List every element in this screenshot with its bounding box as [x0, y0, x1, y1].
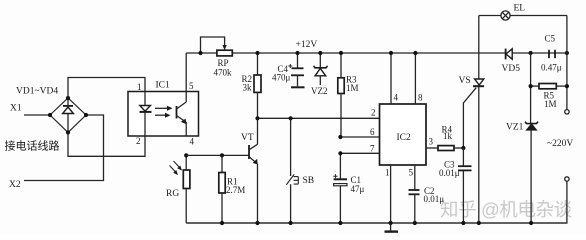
junction R5 left [529, 84, 533, 88]
junction C1 bottom [338, 221, 342, 225]
wire +12V rail [186, 52, 505, 54]
resistor R5 [531, 84, 567, 89]
wire bridge bottom to IC1 pin2 [68, 133, 145, 157]
wire EL right column [566, 16, 568, 110]
junction pin4 on rail [389, 51, 393, 55]
svg-text:X1: X1 [10, 104, 22, 114]
op-to... optocoupler IC1 box [128, 92, 199, 137]
svg-text:4: 4 [190, 137, 195, 147]
diode VD5 [506, 49, 513, 60]
junction R1 bottom [220, 221, 224, 225]
junction SB top [289, 116, 293, 120]
timer IC2 box [380, 104, 427, 165]
wire bridge top to IC1 pin1 [68, 78, 145, 99]
svg-text:RG: RG [166, 189, 179, 199]
svg-text:2: 2 [371, 108, 376, 118]
svg-text:VT: VT [241, 133, 254, 143]
resistor R2 [254, 53, 261, 118]
capacitor C3 [458, 148, 472, 223]
svg-text:8: 8 [418, 93, 423, 103]
transistor VT [249, 118, 258, 223]
wire IC2 pin5 lead [414, 165, 416, 190]
junction C2 bottom [413, 221, 417, 225]
svg-text:5: 5 [189, 81, 194, 91]
potentiometer RP [201, 37, 233, 56]
wire IC2 pin6 [340, 136, 379, 138]
svg-text:1M: 1M [346, 83, 359, 93]
svg-text:接电话线路: 接电话线路 [5, 139, 60, 153]
wire IC2 pin4 riser [390, 53, 392, 104]
junction C3 bottom [461, 221, 465, 225]
thyristor VS [463, 16, 484, 224]
svg-text:4: 4 [394, 93, 399, 103]
wire +12V rail right of VD5 [512, 52, 567, 54]
terminal upper 220V [565, 110, 569, 114]
junction RP loop on rail [198, 51, 202, 55]
junction IC2 pin1 bottom [389, 221, 393, 225]
svg-text:+12V: +12V [296, 40, 318, 50]
terminal lower 220V [565, 177, 569, 181]
svg-text:3k: 3k [243, 83, 253, 93]
ground symbol [385, 223, 399, 232]
junction R4 C3 gate node [461, 146, 465, 150]
junction VZ1 bottom [529, 221, 533, 225]
resistor R3 [338, 53, 344, 137]
wire lower terminal to ground rail [186, 181, 567, 223]
svg-text:0.01μ: 0.01μ [439, 168, 460, 178]
capacitor C2 [409, 190, 420, 223]
pushbutton SB [286, 118, 298, 223]
junction VZ2 top [318, 51, 322, 55]
svg-text:1: 1 [385, 168, 390, 178]
svg-text:1k: 1k [443, 131, 453, 141]
IC1 internal LED [140, 92, 152, 137]
svg-text:1: 1 [137, 82, 142, 92]
wire IC2 pin7 [340, 152, 379, 154]
bridge rectifier VD1~VD4 diamond [50, 98, 86, 133]
wire ground rail bottom [186, 222, 567, 224]
svg-text:IC1: IC1 [156, 81, 171, 91]
svg-text:RP: RP [218, 58, 229, 68]
svg-text:X2: X2 [9, 180, 21, 190]
capacitor C1 electrolytic [333, 153, 347, 223]
zener diode VZ1 [525, 122, 538, 223]
svg-text:1M: 1M [544, 99, 557, 109]
wire IC2 pin1 to ground rail [390, 165, 392, 223]
wire IC1 pin5 riser to +12V rail [185, 53, 187, 92]
svg-text:6: 6 [370, 127, 375, 137]
junction SB bottom [289, 221, 293, 225]
svg-text:VS: VS [459, 76, 471, 86]
svg-text:7: 7 [370, 144, 375, 154]
bridge internal diode [63, 98, 74, 133]
svg-text:EL: EL [514, 4, 526, 14]
lamp EL [479, 11, 567, 20]
svg-text:0.01μ: 0.01μ [424, 194, 445, 204]
capacitor C5 [549, 50, 555, 58]
svg-text:VD5: VD5 [502, 64, 521, 74]
junction C4 top [295, 51, 299, 55]
junction pin7 node [338, 151, 342, 155]
junction C5 right node [565, 51, 569, 55]
svg-text:~220V: ~220V [547, 139, 573, 149]
svg-text:2: 2 [136, 136, 141, 146]
junction VT emitter bottom [255, 221, 259, 225]
junction R2 top [255, 51, 259, 55]
svg-text:3: 3 [429, 137, 434, 147]
svg-text:IC2: IC2 [397, 133, 412, 143]
svg-text:470μ: 470μ [272, 73, 291, 83]
photoresistor RG [170, 155, 190, 223]
svg-text:5: 5 [409, 168, 414, 178]
svg-text:VZ1: VZ1 [506, 123, 524, 133]
junction R3 top [339, 51, 343, 55]
wire VZ1 column [530, 53, 532, 124]
junction C5 left node [529, 51, 533, 55]
junction pin6 node [338, 135, 342, 139]
resistor R1 [219, 155, 225, 223]
svg-text:2.7M: 2.7M [226, 185, 245, 195]
wire base line to VT [186, 154, 249, 156]
junction R5 right [565, 84, 569, 88]
svg-text:VZ2: VZ2 [311, 86, 328, 96]
junction R1 top [220, 153, 224, 157]
svg-text:知乎 @机电杂谈: 知乎 @机电杂谈 [440, 199, 572, 220]
junction VS bottom [477, 221, 481, 225]
junction IC1 pin4 RG node [184, 153, 188, 157]
IC1 light arrows [155, 106, 173, 118]
IC1 phototransistor [177, 92, 187, 137]
wire trigger line pin2 of IC2 [258, 117, 380, 119]
bridge corner junction dots [48, 96, 88, 135]
resistor R4 [426, 146, 463, 151]
svg-text:0.47μ: 0.47μ [541, 63, 562, 73]
wire IC2 pin8 riser [414, 53, 416, 104]
capacitor C4 electrolytic [288, 53, 304, 87]
zener diode VZ2 [314, 53, 328, 85]
wire X1 lead [24, 114, 50, 116]
wire X2 lead to bridge right corner [24, 115, 104, 181]
junction VT collector node [255, 116, 259, 120]
svg-text:VD1~VD4: VD1~VD4 [16, 87, 58, 97]
svg-text:47μ: 47μ [351, 184, 365, 194]
junction pin8 on rail [413, 51, 417, 55]
svg-text:C5: C5 [545, 34, 556, 44]
svg-text:470k: 470k [214, 68, 233, 78]
svg-text:SB: SB [303, 176, 315, 186]
